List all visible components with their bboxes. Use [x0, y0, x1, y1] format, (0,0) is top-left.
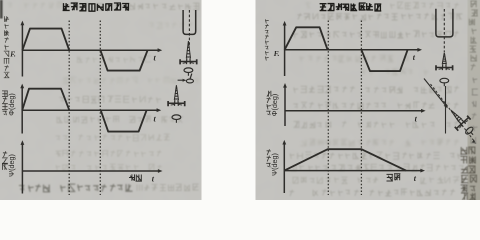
- right graph1 x-axis (time): [285, 48, 422, 52]
- left graph1 stick input positive trapezoid: [22, 29, 69, 51]
- svg-text:Ψ(deg): Ψ(deg): [270, 153, 279, 176]
- svg-text:F.: F.: [10, 50, 16, 58]
- right pedal centerline (dashed): [443, 9, 445, 52]
- bleed-through text row: [19, 184, 133, 192]
- right panel title (rudder pedal operation): [320, 3, 382, 11]
- bleed-through text row: [77, 56, 151, 63]
- right edge adjacent-column upper text: [469, 1, 478, 70]
- right graph3 time label: [387, 174, 401, 181]
- right aircraft icon 2 (yawed attitude): [445, 104, 480, 140]
- left stick centerline (dashed): [188, 10, 190, 46]
- left graph2 y-axis label (bank angle): [2, 91, 8, 115]
- left graph2 bank angle negative trapezoid: [101, 110, 147, 131]
- scan paper texture left: [0, 0, 202, 200]
- bleed-through text row: [362, 69, 429, 76]
- right heading reference line: [445, 86, 447, 134]
- dark scan corner mark top-left: [0, 0, 3, 19]
- left aircraft icon 1 (wings level): [180, 41, 197, 76]
- bleed-through text row: [293, 121, 458, 128]
- right panel scanned background: [256, 0, 480, 200]
- right graph2 y-axis: [283, 83, 287, 126]
- bleed-through text row: [59, 96, 161, 103]
- right graph1 y-axis label (rudder pedal input): [265, 19, 269, 60]
- bleed-through text row: [57, 116, 184, 123]
- left graph2 y-axis: [20, 84, 24, 134]
- bleed-through text row: [293, 31, 458, 38]
- right yaw deviation line: [424, 79, 448, 109]
- svg-text:Φ(deg): Φ(deg): [270, 94, 279, 117]
- svg-text:F.: F.: [274, 50, 280, 58]
- bleed-through text row: [293, 102, 458, 109]
- left graph2 bank angle positive trapezoid: [22, 89, 69, 111]
- right edge adjacent-column faint text: [470, 78, 477, 144]
- left stick grip symbol (rectangle): [183, 10, 196, 34]
- bleed-through text row: [149, 22, 193, 29]
- right pedal symbol (rectangle): [436, 9, 453, 37]
- right timing dotted line 1: [327, 21, 329, 196]
- left graph1 stick input negative trapezoid: [100, 50, 147, 70]
- right graph1 rudder input negative trapezoid: [361, 50, 407, 71]
- right yawed heading arrowhead: [472, 140, 477, 144]
- right graph2 y-axis label (bank angle): [266, 91, 271, 115]
- left aircraft icon 2 (after roll input): [168, 85, 185, 123]
- bleed-through text row: [291, 164, 464, 171]
- right edge adjacent-column text: [460, 147, 477, 200]
- left graph3 x-axis (time): [22, 169, 162, 173]
- bleed-through text row: [7, 2, 88, 9]
- right graph3 y-axis: [282, 140, 286, 193]
- bleed-through text row: [63, 77, 198, 84]
- left graph1 y-axis label (stick lateral input): [4, 16, 10, 78]
- bleed-through text row: [56, 164, 162, 171]
- left timing dotted line 1: [68, 21, 70, 196]
- left graph3 y-axis: [21, 140, 25, 193]
- bleed-through text row: [305, 3, 311, 9]
- bleed-through text row: [297, 13, 462, 20]
- right graph3 x-axis (time): [284, 169, 425, 173]
- left graph1 y-axis: [21, 21, 25, 77]
- left timing dotted line 2: [99, 21, 101, 196]
- bleed-through text row: [301, 139, 459, 146]
- bleed-through text row: [56, 150, 162, 157]
- scan paper texture right: [256, 0, 480, 200]
- bleed-through text row: [294, 86, 459, 93]
- right edge darker book strip: [468, 0, 480, 200]
- right graph2 x-axis (time): [285, 109, 426, 113]
- bleed-through text row: [390, 2, 459, 9]
- bleed-through text row: [300, 55, 409, 62]
- left graph3 y-axis label (heading angle): [2, 151, 8, 170]
- left graph1 x-axis (time): [22, 48, 162, 52]
- right graph3 y-axis label (heading angle): [266, 149, 271, 167]
- left panel title (stick lateral operation): [63, 3, 130, 11]
- right timing dotted line 2: [360, 21, 362, 196]
- bleed-through text row: [420, 177, 466, 184]
- bleed-through text row: [289, 189, 455, 196]
- bleed-through text row: [137, 184, 199, 191]
- bleed-through text row: [290, 152, 462, 159]
- right graph3 heading angle trapezoid: [284, 149, 406, 170]
- bleed-through text row: [292, 177, 378, 184]
- right graph1 rudder input positive trapezoid: [285, 27, 328, 50]
- left panel scanned background: [0, 0, 202, 200]
- left graph3 time label: [129, 174, 142, 181]
- right aircraft icon 1 (nose reference): [436, 53, 453, 87]
- right graph1 y-axis: [283, 21, 287, 76]
- right rotated aircraft axis (dashed): [431, 84, 475, 142]
- left stick deflection arrow: [178, 79, 187, 82]
- bleed-through text row: [56, 134, 170, 141]
- bleed-through text row: [97, 3, 200, 10]
- svg-text:Φ(deg): Φ(deg): [7, 93, 16, 116]
- svg-text:Ψ(deg): Ψ(deg): [7, 154, 16, 177]
- left stick base symbol: [186, 74, 193, 83]
- left graph2 x-axis (time): [22, 108, 161, 112]
